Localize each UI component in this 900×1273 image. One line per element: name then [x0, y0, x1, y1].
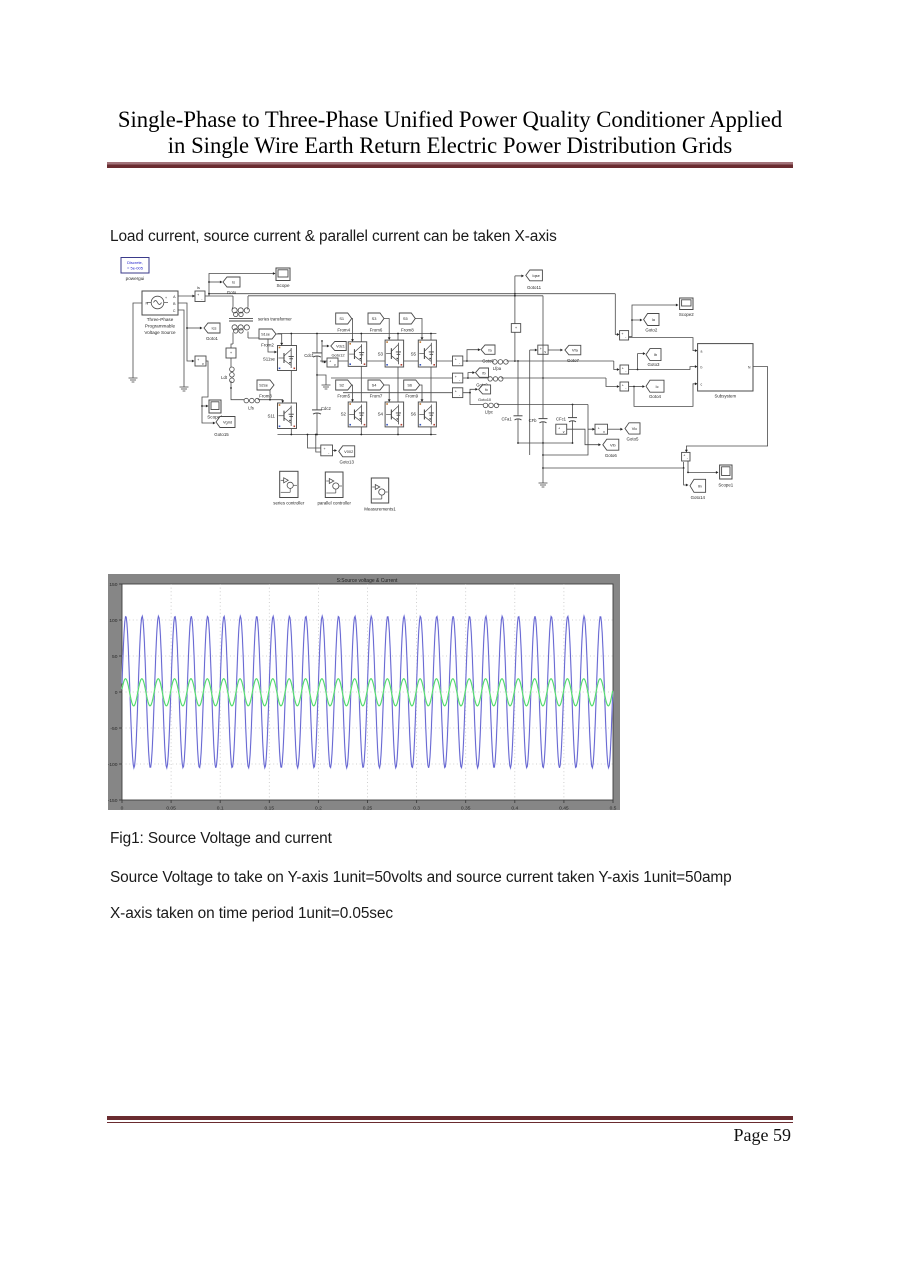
- svg-text:Vlb: Vlb: [610, 442, 616, 447]
- wire phase row c: [343, 392, 453, 394]
- svg-text:CFc1: CFc1: [556, 417, 567, 422]
- svg-text:v: v: [563, 430, 565, 434]
- goto tag Vlb: [567, 429, 600, 445]
- svg-text:Scope1: Scope1: [718, 483, 733, 488]
- svg-text:Cdc2: Cdc2: [321, 406, 331, 411]
- wire neutral to right: [543, 467, 684, 469]
- svg-text:S4: S4: [378, 412, 384, 417]
- three-phase programmable voltage source U1: [142, 291, 178, 315]
- wire S6 emitter: [430, 427, 432, 435]
- wire source A to current sensor: [178, 295, 195, 297]
- goto tag Vgrid: [216, 417, 235, 428]
- subsystem series controller: [280, 471, 298, 497]
- current sensor Ifa: [453, 356, 463, 366]
- svg-text:c: c: [701, 383, 703, 387]
- svg-text:0: 0: [115, 690, 118, 696]
- svg-text:Ldt: Ldt: [221, 375, 228, 380]
- svg-text:0.35: 0.35: [461, 806, 471, 811]
- current measurement Iqse sensor: [511, 324, 520, 333]
- wire phase B drop: [542, 296, 544, 378]
- current sensor Ia: [620, 331, 629, 340]
- wire Ldt to Lfs: [231, 381, 244, 400]
- document title: [0, 107, 900, 160]
- wire Lfs to S11: [258, 400, 283, 402]
- svg-text:powergui: powergui: [126, 276, 145, 281]
- voltage measurement Vfa sensor: [530, 349, 537, 351]
- svg-text:Ib: Ib: [654, 352, 657, 357]
- goto tag Ics: [187, 327, 202, 329]
- svg-text:Goto13: Goto13: [339, 460, 354, 465]
- wire subsystem output loop: [686, 367, 767, 452]
- scope block Scope: [276, 268, 290, 281]
- svg-text:S11se: S11se: [263, 357, 276, 362]
- subsystem block: [698, 344, 753, 391]
- wire phase A to transformer: [209, 295, 233, 297]
- svg-text:Three-Phase: Three-Phase: [147, 317, 174, 322]
- svg-text:+: +: [165, 296, 167, 300]
- svg-text:50: 50: [112, 654, 118, 660]
- dc mid node / ground G3: [317, 375, 326, 379]
- svg-text:Goto6: Goto6: [605, 453, 618, 458]
- svg-text:S11: S11: [268, 414, 276, 419]
- current measurement Idc: [231, 344, 233, 348]
- wire to Ldt: [230, 358, 232, 367]
- inductor Lfpb: [468, 377, 488, 379]
- wire S11se collector: [290, 334, 292, 346]
- svg-text:0.5: 0.5: [610, 806, 617, 811]
- svg-text:+: +: [197, 293, 199, 297]
- svg-text:Goto2: Goto2: [645, 328, 658, 333]
- voltage measurement Vgrid sensor: [195, 356, 206, 366]
- ground G2: [183, 381, 185, 387]
- svg-text:CFb: CFb: [529, 418, 538, 423]
- caption fig1: [110, 830, 332, 848]
- wire source N to ground: [133, 303, 142, 372]
- header rule: [107, 162, 793, 169]
- svg-text:S2: S2: [339, 383, 344, 388]
- subsystem Measurements1: [371, 478, 388, 503]
- wire leg2 mid: [397, 367, 399, 402]
- source current waveform (green): [122, 679, 613, 706]
- dotted grid: [122, 584, 613, 800]
- goto tag Vdc1: [322, 345, 329, 347]
- scope window frame: [108, 574, 620, 810]
- inductor Ldt: [230, 367, 235, 372]
- from tag S1: [336, 313, 352, 324]
- svg-text:b: b: [701, 365, 703, 369]
- svg-text:v: v: [334, 363, 336, 367]
- wire S1 collector: [360, 334, 362, 342]
- wire S1se to gate: [276, 334, 282, 345]
- svg-text:+: +: [598, 426, 600, 430]
- wire bus to Ia sensor: [615, 294, 618, 335]
- wire S4 emitter: [397, 427, 399, 435]
- svg-text:From2: From2: [261, 343, 274, 348]
- svg-text:0.15: 0.15: [265, 806, 275, 811]
- wire neutral into sensor: [683, 462, 685, 468]
- svg-text:Vdc1: Vdc1: [336, 344, 345, 349]
- svg-text:0.25: 0.25: [363, 806, 373, 811]
- voltage measurement Vlb sensor: [556, 424, 567, 434]
- svg-text:Lfpc: Lfpc: [485, 410, 493, 415]
- svg-text:+: +: [197, 358, 199, 362]
- from tag S5: [399, 313, 415, 324]
- svg-text:S3: S3: [372, 316, 377, 321]
- svg-text:0.2: 0.2: [315, 806, 322, 811]
- svg-text:fc: fc: [485, 387, 488, 392]
- svg-text:C: C: [173, 309, 176, 313]
- svg-text:Vfa: Vfa: [572, 348, 579, 353]
- svg-text:S6: S6: [407, 383, 412, 388]
- wire source B down: [178, 303, 194, 361]
- subsystem parallel controller: [325, 472, 343, 498]
- wire phase row a: [320, 360, 453, 362]
- wire S11se emitter to S11 collector: [290, 371, 292, 404]
- svg-text:From6: From6: [370, 328, 383, 333]
- IGBT S4: [385, 402, 404, 427]
- goto tag Ic: [629, 386, 644, 388]
- svg-text:Goto3: Goto3: [648, 362, 661, 367]
- wire row c to load: [497, 404, 588, 406]
- goto tag fc: [463, 389, 477, 392]
- current sensor Ic: [620, 382, 629, 391]
- page number: [0, 1125, 791, 1146]
- goto tag Iqse: [526, 270, 543, 281]
- from tag S1se: [259, 329, 276, 339]
- goto tag V002: [333, 450, 337, 452]
- voltage measurement Vdc1 sensor: [327, 358, 338, 367]
- source voltage waveform (blue): [122, 616, 613, 768]
- svg-text:CFa1: CFa1: [501, 417, 512, 422]
- svg-text:From3: From3: [259, 394, 272, 399]
- IGBT S3: [385, 340, 404, 367]
- svg-text:From7: From7: [370, 394, 383, 399]
- svg-text:a: a: [701, 349, 703, 353]
- wire S2 gate: [351, 385, 354, 401]
- wire row a to load: [507, 360, 614, 362]
- wires to Vdc2 sensor: [308, 435, 321, 449]
- svg-text:From8: From8: [401, 328, 414, 333]
- svg-text:+: +: [323, 447, 325, 451]
- scope screenshot figure: [108, 574, 620, 810]
- svg-text:Is: Is: [232, 280, 235, 285]
- goto tag Ia: [629, 320, 642, 337]
- svg-text:+: +: [455, 375, 457, 379]
- capacitor Cdc1: [316, 334, 318, 348]
- svg-text:Goto15: Goto15: [214, 432, 229, 437]
- current sensor Ifb: [453, 373, 463, 383]
- svg-text:S6: S6: [411, 412, 417, 417]
- svg-text:Goto11: Goto11: [527, 285, 542, 290]
- svg-text:Goto7: Goto7: [567, 358, 580, 363]
- wire neutral down: [542, 443, 544, 477]
- wire S3 collector: [397, 334, 399, 341]
- svg-text:S5: S5: [403, 316, 408, 321]
- IGBT S6: [418, 402, 436, 427]
- wire sensor out / branches: [205, 295, 209, 297]
- svg-text:Vgrid: Vgrid: [223, 420, 232, 425]
- paragraph: [110, 228, 557, 246]
- simulink model diagram: [100, 250, 780, 516]
- svg-text:Goto1: Goto1: [206, 336, 219, 341]
- svg-text:S2se: S2se: [259, 383, 268, 388]
- svg-text:fb: fb: [482, 370, 485, 375]
- svg-text:N: N: [146, 301, 149, 305]
- ground G4: [542, 477, 544, 483]
- svg-text:v: v: [544, 350, 546, 354]
- wire S2 emitter: [360, 427, 362, 435]
- from tag S6: [404, 380, 420, 390]
- inductor Lfpa: [467, 360, 493, 362]
- wire transformer secondary right: [248, 338, 277, 352]
- current sensor Ib: [620, 365, 629, 374]
- IGBT S2: [348, 402, 367, 427]
- wire S2se down: [269, 390, 271, 400]
- goto tag Vlc: [608, 428, 623, 430]
- svg-text:Is: Is: [197, 286, 200, 290]
- svg-text:Lfs: Lfs: [248, 406, 254, 411]
- wire top bus A: [209, 293, 615, 295]
- svg-text:parallel controller: parallel controller: [317, 501, 351, 506]
- svg-text:S4: S4: [372, 383, 378, 388]
- goto tag Ib: [629, 354, 645, 370]
- wire leg3 mid: [430, 367, 432, 402]
- caption fig2: [110, 869, 732, 887]
- wire capacitor common bus: [518, 442, 573, 444]
- axis labels: [108, 582, 617, 812]
- wire S1 gate: [351, 319, 354, 341]
- svg-text:Cdc1: Cdc1: [304, 353, 314, 358]
- capacitor CFb: [542, 378, 544, 417]
- capacitor CFc1: [572, 405, 574, 417]
- plot area: [122, 584, 613, 800]
- svg-text:+: +: [540, 347, 542, 351]
- IGBT S5: [418, 340, 436, 367]
- wire vgrid sensor out: [202, 361, 215, 423]
- svg-text:+: +: [621, 332, 623, 336]
- svg-text:Lfpa: Lfpa: [493, 366, 502, 371]
- goto tag Is: [223, 277, 240, 287]
- svg-text:0.45: 0.45: [559, 806, 569, 811]
- svg-text:-100: -100: [108, 762, 118, 768]
- footer rule thick: [107, 1116, 793, 1121]
- svg-text:v: v: [202, 362, 204, 366]
- svg-text:+: +: [683, 454, 685, 458]
- caption fig3: [110, 905, 393, 923]
- series transformer T1: [232, 296, 234, 307]
- IGBT S1: [348, 342, 367, 367]
- inductor Lfs: [244, 398, 249, 403]
- footer rule thin: [107, 1122, 793, 1123]
- wire leg1 mid: [360, 366, 362, 402]
- wire neutral segment: [543, 429, 588, 455]
- inductor Lfpc: [470, 393, 483, 405]
- goto tag fa: [463, 350, 480, 361]
- svg-text:series controller: series controller: [273, 501, 305, 506]
- svg-text:Ics: Ics: [212, 326, 217, 331]
- svg-text:S1se: S1se: [261, 332, 270, 337]
- voltage measurement Vdc2 sensor: [321, 445, 333, 456]
- wire S4 gate: [384, 385, 389, 401]
- svg-text:+: +: [455, 390, 457, 394]
- svg-text:150: 150: [109, 582, 117, 588]
- svg-text:Iln: Iln: [698, 483, 702, 488]
- svg-text:S1: S1: [339, 316, 344, 321]
- svg-text:Goto10: Goto10: [478, 397, 492, 402]
- svg-text:Goto12: Goto12: [331, 353, 345, 358]
- wire row b to load: [501, 377, 606, 379]
- svg-text:0.3: 0.3: [413, 806, 420, 811]
- svg-text:+: +: [622, 383, 624, 387]
- wire S11 emitter: [290, 429, 292, 435]
- scope block Scope2: [632, 305, 678, 320]
- voltage measurement Vlc sensor: [595, 424, 608, 434]
- svg-text:S5: S5: [411, 352, 417, 357]
- svg-text:0.1: 0.1: [217, 806, 224, 811]
- IGBT S11se: [278, 346, 297, 371]
- svg-text:V002: V002: [344, 449, 353, 454]
- IGBT S11: [278, 403, 297, 429]
- svg-text:+: +: [455, 358, 457, 362]
- wire bridge bottom bus: [278, 434, 437, 436]
- svg-text:-50: -50: [110, 726, 117, 732]
- svg-text:Iqse: Iqse: [532, 273, 539, 278]
- svg-text:Subsystem: Subsystem: [714, 394, 736, 399]
- from tag S4: [368, 380, 384, 390]
- wire top bus B: [248, 295, 543, 297]
- capacitor CFa1: [517, 361, 519, 414]
- svg-text:Goto14: Goto14: [691, 495, 706, 500]
- wire S3 gate: [384, 319, 389, 340]
- svg-text:S3: S3: [378, 352, 384, 357]
- current sensor Iln: [682, 452, 690, 461]
- current sensor Ifc: [453, 388, 463, 398]
- svg-text:+: +: [329, 360, 331, 364]
- scope block Scope3: [720, 465, 732, 479]
- wire Ib to subsystem: [638, 367, 697, 370]
- wire S6 gate: [420, 385, 422, 401]
- from tag S2: [336, 380, 352, 390]
- goto tag Vfa: [548, 349, 562, 351]
- wire sensor to scope1: [688, 461, 718, 472]
- current measurement Is: [195, 291, 205, 302]
- svg-text:S2: S2: [341, 412, 347, 417]
- svg-text:Programmable: Programmable: [145, 324, 176, 329]
- goto tag fb: [463, 373, 474, 378]
- svg-text:From5: From5: [337, 394, 350, 399]
- svg-text:Measurements1: Measurements1: [364, 507, 396, 512]
- scope block Scope1: [209, 400, 221, 413]
- svg-text:+: +: [622, 366, 624, 370]
- svg-text:series transformer: series transformer: [258, 317, 292, 322]
- svg-text:Scope: Scope: [276, 283, 289, 288]
- wire source C to ground: [178, 310, 184, 381]
- svg-text:Voltage Source: Voltage Source: [144, 330, 176, 335]
- wire S5 collector: [430, 334, 432, 341]
- svg-text:Scope2: Scope2: [679, 312, 694, 317]
- svg-text:100: 100: [109, 618, 117, 624]
- wire bridge top bus: [278, 333, 437, 335]
- svg-text:= 5e-005: = 5e-005: [127, 266, 144, 271]
- svg-text:0.05: 0.05: [166, 806, 176, 811]
- wire Iqse: [514, 294, 516, 324]
- axis ticks: [119, 584, 613, 803]
- svg-text:+: +: [558, 426, 560, 430]
- svg-text:Discrete,: Discrete,: [127, 260, 143, 265]
- from tag S2se: [257, 380, 274, 390]
- svg-text:v: v: [603, 430, 605, 434]
- svg-text:-150: -150: [108, 798, 118, 804]
- from tag S3: [368, 313, 384, 324]
- wire phase row b: [331, 377, 453, 379]
- svg-text:Vlc: Vlc: [632, 426, 637, 431]
- wire S5 gate: [415, 319, 422, 340]
- capacitor Cdc2: [316, 375, 318, 404]
- wire Ic to subsystem: [634, 384, 697, 407]
- wire Ia to subsystem: [629, 338, 697, 351]
- svg-text:Goto: Goto: [227, 290, 237, 295]
- svg-text:0.4: 0.4: [511, 806, 518, 811]
- svg-text:Goto4: Goto4: [649, 394, 662, 399]
- powergui block: [121, 258, 149, 274]
- svg-text:S:Source voltage & Current: S:Source voltage & Current: [337, 578, 398, 584]
- ground G1: [132, 372, 134, 378]
- svg-text:From9: From9: [405, 394, 418, 399]
- svg-text:From4: From4: [337, 328, 350, 333]
- svg-text:Ic: Ic: [655, 384, 658, 389]
- svg-text:0: 0: [121, 806, 124, 811]
- goto tag Iln: [684, 468, 688, 485]
- svg-text:Goto5: Goto5: [627, 437, 640, 442]
